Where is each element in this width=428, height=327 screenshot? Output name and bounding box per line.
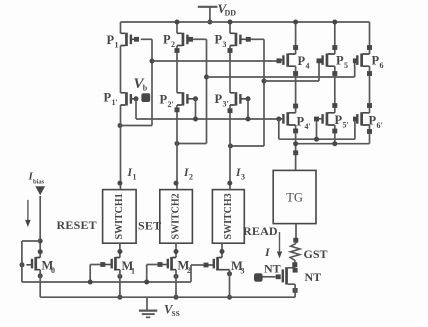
contact P5' source (332, 103, 337, 108)
svg-text:P: P (336, 54, 344, 68)
svg-text:P: P (335, 113, 343, 127)
contact P2' drain (175, 107, 180, 112)
contact M0 source (38, 273, 43, 278)
svg-text:SWITCH3: SWITCH3 (223, 193, 234, 239)
wire P6' drain to bus (369, 125, 371, 144)
wire SWITCH3 to M3 drain (221, 243, 223, 257)
ground symbol (146, 297, 148, 310)
transistor P1 (121, 33, 126, 45)
wire P2' drain to P2 gate link (177, 143, 207, 145)
wire P2 gate vertical (206, 39, 208, 143)
contact P3' drain (228, 108, 233, 113)
wire VSS rail (40, 296, 295, 298)
svg-text:READ: READ (243, 224, 278, 238)
junction rail-P5 (332, 20, 337, 25)
contact P6 drain (367, 71, 372, 76)
svg-text:SWITCH2: SWITCH2 (171, 193, 182, 239)
wire TG to GST resistor (295, 224, 297, 244)
transistor P6 (363, 54, 370, 66)
wire P4 drain to P4' source (295, 66, 297, 113)
wire M3 gate lead (191, 264, 204, 266)
svg-text:2: 2 (171, 40, 175, 49)
wire M0 gate to drain link (22, 240, 40, 242)
gate contact M1 (100, 262, 105, 267)
gate contact P4 (277, 58, 282, 63)
node I2 junction (175, 141, 180, 146)
svg-text:5: 5 (344, 61, 348, 70)
wire P6 source from rail (369, 22, 371, 54)
svg-text:5′: 5′ (343, 121, 349, 130)
transistor M1 (114, 258, 120, 270)
svg-text:3: 3 (241, 267, 245, 276)
svg-text:b: b (143, 84, 148, 93)
transistor NT (288, 268, 295, 284)
box SWITCH2 (160, 190, 193, 244)
wire M0 source to VSS rail (39, 270, 41, 298)
svg-text:DD: DD (225, 9, 237, 18)
svg-text:RESET: RESET (57, 218, 97, 232)
wire P5' drain to bus (334, 125, 336, 144)
svg-text:2: 2 (189, 173, 193, 182)
wire P1 gate vertical (151, 39, 153, 125)
junction rail-P4 (293, 20, 298, 25)
wire P6' gate riser (354, 121, 356, 139)
svg-text:3: 3 (223, 40, 227, 49)
wire line B (P2 gate to P6 gate) (207, 76, 355, 78)
junction Vb-P2' (193, 117, 198, 122)
annotation current arrow Ibias (27, 200, 29, 221)
wire I2 from P2' drain to SWITCH2 (176, 105, 178, 190)
junction M0 diode connection (38, 239, 43, 244)
node below SWITCH1 (117, 249, 122, 254)
wire line B riser to P6 gate (354, 63, 356, 77)
gate contact P1 (134, 37, 139, 42)
contact P4 drain (293, 71, 298, 76)
junction M1 source-VSS (117, 295, 122, 300)
wire I3 from P3' drain to SWITCH3 (229, 105, 231, 190)
gate contact M3 (204, 263, 209, 268)
contact M0 drain (38, 249, 43, 254)
wire P3 gate lead (250, 38, 264, 40)
wire Vb vertical (135, 99, 137, 119)
wire P3' gate to Vb line (247, 99, 249, 119)
contact M1 source (117, 274, 122, 279)
svg-text:1: 1 (133, 173, 137, 182)
gate contact P5' (314, 117, 319, 122)
wire P1 gate to node (141, 38, 152, 40)
contact TG bottom (293, 238, 298, 243)
svg-text:NT: NT (264, 262, 281, 276)
wire P3 source from rail (229, 22, 231, 33)
svg-text:3: 3 (241, 173, 245, 182)
junction M2 gate on rail (144, 280, 149, 285)
junction P3' gate lead (246, 96, 251, 101)
contact P6' source (367, 103, 372, 108)
terminal Ibias input arrowhead (35, 186, 45, 195)
svg-text:NT: NT (305, 270, 322, 284)
contact P4 source (293, 45, 298, 50)
contact M3 source (227, 271, 232, 276)
svg-text:1: 1 (131, 267, 135, 276)
svg-text:4: 4 (306, 62, 310, 71)
wire M1 source to VSS rail (119, 270, 121, 298)
wire P5' gate riser (316, 121, 318, 139)
contact GST bottom (292, 262, 297, 267)
gate contact P3 (246, 37, 251, 42)
node below SWITCH2 (174, 249, 179, 254)
wire P1 source from rail (120, 22, 122, 33)
node P2 gate / line B junction (204, 75, 209, 80)
gate contact M2 (158, 262, 163, 267)
svg-text:0: 0 (51, 266, 55, 275)
junction Vb - P4' gate (276, 117, 281, 122)
terminal NT input blob (254, 273, 263, 282)
wire P2 source from rail (176, 22, 178, 33)
svg-text:I: I (264, 245, 271, 259)
contact P2 drain (175, 48, 180, 53)
wire M0 gate down leg (21, 265, 23, 282)
svg-text:6: 6 (380, 61, 384, 70)
transistor P4' (289, 113, 296, 125)
wire M3 gate leg (190, 265, 192, 282)
wire P1' drain to P1 gate link (120, 125, 152, 127)
wire M2 source to VSS rail (175, 270, 177, 298)
gate contact P5 (317, 58, 322, 63)
wire line C riser to P5 gate (318, 63, 320, 81)
contact P5 drain (332, 71, 337, 76)
wire top VDD rail (121, 21, 370, 23)
junction P5' gate on Vb ext (314, 137, 319, 142)
wire P4 source from rail (295, 22, 297, 54)
wire P1 drain to P1' source (120, 46, 122, 93)
svg-text:P: P (372, 54, 380, 68)
transistor M3 (216, 258, 229, 270)
svg-text:P: P (298, 54, 306, 68)
junction bus-P5' drain (332, 141, 337, 146)
gate contact NT (276, 274, 281, 279)
resistor GST (290, 244, 300, 268)
wire P3' drain to P3 gate link (230, 145, 264, 147)
contact P5' drain (332, 129, 337, 134)
transistor P4 (289, 54, 296, 66)
svg-text:P: P (297, 115, 305, 129)
gate contact P2 (188, 37, 193, 42)
svg-text:P: P (215, 33, 223, 47)
node P1 gate / line A junction (150, 59, 155, 64)
wire M0 gate up leg (21, 241, 23, 265)
node P3 gate / line C junction (262, 79, 267, 84)
contact NT source (293, 288, 298, 293)
wire P5 source from rail (334, 22, 336, 54)
box TG (273, 170, 316, 223)
power VDD symbol (198, 6, 218, 8)
junction Vb-P3' (246, 117, 251, 122)
junction VDD-rail (207, 20, 212, 25)
junction bus-P4' drain (293, 141, 298, 146)
svg-text:SWITCH1: SWITCH1 (114, 193, 125, 239)
wire output bus of right group (296, 143, 370, 145)
wire line C (P3 gate to P5 gate) (264, 80, 319, 82)
svg-text:4′: 4′ (305, 122, 311, 131)
wire line A (P1 gate to P4 gate) (152, 60, 277, 62)
contact P5 source (332, 45, 337, 50)
contact P4' drain (293, 129, 298, 134)
transistor P1' (121, 93, 126, 105)
wire M1 gate leg (89, 265, 91, 283)
svg-text:1: 1 (115, 41, 119, 50)
svg-text:6′: 6′ (377, 121, 383, 130)
wire P4' drain down into TG (295, 125, 297, 170)
junction rail-P3 (228, 20, 233, 25)
svg-text:P: P (215, 92, 223, 106)
node I2 at SWITCH2 top (174, 181, 179, 186)
wire P3 drain to P3' source (229, 46, 231, 93)
svg-text:1′: 1′ (112, 98, 118, 107)
wire SWITCH1 to M1 drain (119, 243, 121, 257)
wire P2 drain to P2' source (176, 46, 178, 93)
svg-text:TG: TG (286, 191, 303, 205)
contact P6 source (367, 45, 372, 50)
contact on TG feed (293, 150, 298, 155)
wire Ibias to M0 drain (39, 196, 41, 258)
svg-text:bias: bias (33, 179, 45, 186)
junction M2 source-VSS (174, 295, 179, 300)
transistor M0 (34, 258, 40, 270)
wire NT source to VSS rail (294, 284, 296, 297)
node below SWITCH3 (220, 249, 225, 254)
wire P3 gate vertical (263, 39, 265, 146)
wire SWITCH2 to M2 drain (175, 243, 177, 257)
contact P3 drain (228, 48, 233, 53)
svg-text:P: P (163, 33, 171, 47)
wire P2' gate to Vb line (195, 99, 197, 119)
junction M1 gate on rail (88, 280, 93, 285)
wire Vb distribution line (136, 118, 279, 120)
wire NT gate lead (262, 276, 276, 278)
contact NT drain (293, 268, 298, 273)
transistor P2 (177, 33, 182, 45)
svg-text:2′: 2′ (168, 100, 174, 109)
box SWITCH1 (103, 190, 137, 244)
wire P6 drain to P6' source (369, 66, 371, 113)
wire P5 drain to P5' source (334, 66, 336, 113)
terminal Vb blob (141, 93, 150, 102)
wire M2 gate leg (146, 265, 148, 283)
svg-text:GST: GST (304, 247, 328, 261)
node I3 at SWITCH3 top (227, 181, 232, 186)
wire M3 source to VSS rail (229, 270, 231, 298)
contact P4' source (293, 104, 298, 109)
junction rail-P2 (175, 20, 180, 25)
junction M3 source-VSS (227, 295, 232, 300)
svg-text:SS: SS (172, 309, 180, 318)
gate contact P6 (353, 58, 358, 63)
wire P2 gate lead (193, 38, 207, 40)
box SWITCH3 (212, 190, 244, 244)
node I1 at SWITCH1 top (117, 181, 122, 186)
svg-text:SET: SET (138, 219, 161, 233)
junction M0 gate (20, 262, 25, 267)
contact M2 source (174, 274, 179, 279)
wire Vb extension vertical (278, 119, 280, 139)
junction P1' gate / Vb (134, 96, 139, 101)
wire I1 from P1' drain to SWITCH1 (120, 105, 122, 190)
wire M1 gate lead (90, 264, 100, 266)
transistor P5' (328, 113, 335, 125)
transistor P2' (177, 93, 182, 105)
svg-text:P: P (160, 93, 168, 107)
transistor P3' (230, 93, 235, 105)
gate contact P6' (353, 117, 358, 122)
transistor P3 (230, 33, 235, 45)
svg-text:P: P (104, 91, 112, 105)
svg-text:3′: 3′ (223, 100, 229, 109)
svg-text:P: P (107, 33, 115, 47)
junction P2' gate lead (193, 96, 198, 101)
wire gate bias rail (M0-M3 gates) (22, 281, 191, 283)
wire M2 gate lead (147, 264, 158, 266)
transistor M2 (170, 258, 176, 270)
contact P6' drain (367, 129, 372, 134)
node I1 junction (118, 123, 123, 128)
transistor P6' (363, 113, 370, 125)
node I3 junction (228, 144, 233, 149)
wire Vb extension to P5'/P6' gates (279, 138, 355, 140)
transistor P5 (328, 54, 335, 66)
